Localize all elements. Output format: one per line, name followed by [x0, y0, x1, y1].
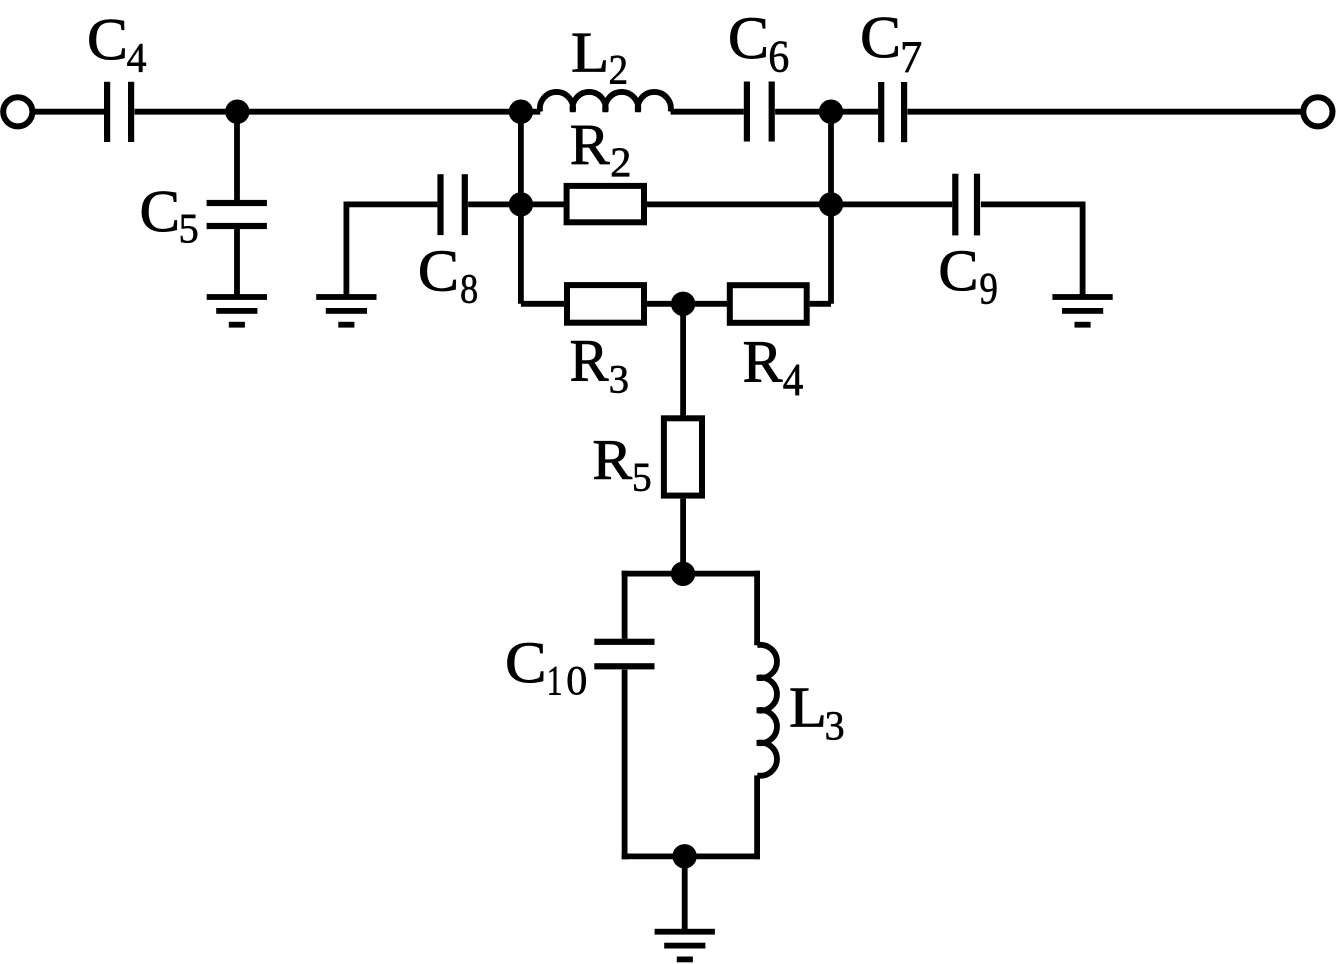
capacitor C10	[594, 639, 654, 645]
wire	[754, 775, 760, 859]
wire	[754, 571, 760, 646]
resistor R2	[567, 186, 644, 222]
label R5	[594, 441, 632, 478]
wire	[908, 109, 1301, 115]
node: junction of C4, C5 branch	[225, 100, 249, 124]
wire	[680, 499, 686, 574]
capacitor C8	[437, 174, 443, 235]
inductor L3	[757, 645, 777, 776]
wire	[647, 201, 952, 207]
wire	[622, 854, 760, 860]
terminal: right output port	[1303, 97, 1332, 126]
wire	[518, 112, 524, 304]
label C7	[863, 18, 898, 58]
ground	[316, 294, 376, 300]
resistor R4	[730, 285, 807, 323]
wire	[234, 112, 240, 200]
capacitor C9	[952, 174, 958, 236]
node: junction of R2, C9, right vertical	[819, 192, 843, 216]
label R2	[571, 126, 609, 164]
label C6	[731, 18, 766, 58]
wire	[346, 204, 437, 296]
capacitor C6	[744, 82, 750, 142]
wire	[775, 109, 878, 115]
label C10	[508, 643, 544, 683]
wire	[810, 301, 831, 307]
resistor R5	[664, 418, 702, 495]
resistor R3	[567, 285, 644, 323]
node: junction of R5 and C10/L3 tank	[671, 562, 695, 586]
wire	[622, 571, 628, 639]
wire	[521, 301, 566, 307]
node: junction of C8, R2, left vertical	[509, 192, 533, 216]
label R4	[744, 342, 782, 381]
label C8	[420, 251, 455, 291]
wire	[682, 856, 688, 931]
wire	[647, 301, 728, 307]
wire	[135, 109, 541, 115]
capacitor C5	[207, 200, 267, 206]
wire	[622, 670, 628, 860]
node: junction of R3, R4, R5	[671, 292, 695, 316]
wire	[35, 109, 104, 115]
wire	[680, 304, 686, 417]
label C4	[90, 20, 125, 60]
label C5	[142, 192, 177, 232]
wire	[234, 229, 240, 296]
node: junction of L2/C6 output and C7	[819, 100, 843, 124]
wire	[671, 109, 744, 115]
wire	[468, 201, 566, 207]
capacitor C4	[104, 82, 110, 142]
node: junction of row1 and left vertical	[509, 100, 533, 124]
terminal: left input port	[3, 97, 32, 126]
ground	[1052, 294, 1112, 300]
wire	[981, 204, 1083, 296]
node: junction of tank bottom and ground lead	[672, 844, 696, 868]
wire	[622, 571, 760, 577]
ground	[655, 929, 715, 935]
inductor L2	[540, 92, 671, 112]
label C9	[941, 251, 975, 290]
label R3	[571, 341, 608, 380]
capacitor C7	[878, 82, 884, 142]
ground	[207, 294, 267, 300]
label L2	[573, 34, 606, 72]
wire	[828, 112, 834, 304]
label L3	[791, 689, 823, 727]
